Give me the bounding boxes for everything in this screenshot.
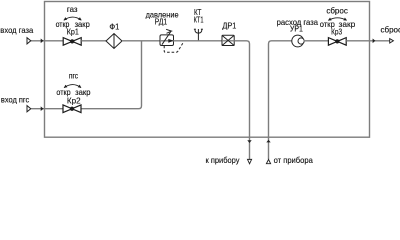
arc arrow откр/закр for Кр2 [64, 85, 81, 88]
svg-text:вход газа: вход газа [0, 26, 34, 35]
valve Kp1 [63, 38, 81, 46]
wire: ДР1 to к прибору drop [234, 41, 249, 160]
node: от прибора port triangle [266, 159, 270, 163]
flow arrow into box (пгс inlet) [41, 106, 44, 111]
filter Ф1 [106, 34, 122, 49]
wire: riser from пгс branch joining main line [81, 41, 141, 109]
svg-text:ДР1: ДР1 [222, 22, 236, 31]
svg-text:Кр1: Кр1 [67, 28, 79, 37]
test point KT1 symbol [194, 29, 203, 41]
dashed impulse line of РД1 [164, 43, 183, 52]
svg-text:сброс: сброс [381, 25, 400, 34]
wire: пгс inlet to valve Кр2 [31, 108, 63, 110]
wire: Кр3 to сброс outlet [346, 40, 390, 42]
wire: от прибора rise to УР1 [269, 41, 292, 160]
wire: F1 to regulator РД1 [122, 40, 160, 42]
valve Кр2 [63, 105, 81, 113]
wire: УР1 to Кр3 [304, 40, 329, 42]
svg-text:пгс: пгс [69, 72, 78, 81]
wire: РД1 to ДР1 [174, 40, 223, 42]
svg-text:вход пгс: вход пгс [1, 95, 29, 104]
node: вход пгс port triangle [27, 106, 31, 112]
svg-text:сброс: сброс [326, 6, 348, 15]
node: сброс port triangle [390, 39, 394, 43]
node: к прибору port triangle [248, 159, 252, 163]
svg-text:от прибора: от прибора [274, 156, 314, 165]
wire: gas inlet to valve Kp1 [31, 40, 64, 42]
svg-text:Кр3: Кр3 [331, 28, 342, 37]
flow arrow down (к прибору crossing) [247, 140, 251, 143]
svg-text:газ: газ [67, 5, 78, 14]
pressure regulator РД1 [160, 29, 174, 45]
wire: Kp1 to filter F1 [81, 40, 106, 42]
node: вход газа port triangle [27, 38, 31, 44]
svg-text:к прибору: к прибору [206, 156, 240, 165]
svg-text:РД1: РД1 [155, 17, 168, 26]
flow arrow into box (gas inlet) [41, 39, 44, 44]
arc arrow откр/закр for Кр3 [328, 18, 346, 21]
flow arrow out (сброс crossing) [373, 39, 376, 44]
throttle ДР1 [222, 35, 234, 45]
svg-text:Ф1: Ф1 [109, 22, 119, 31]
svg-text:УР1: УР1 [290, 25, 303, 34]
arc arrow откр/закр for Kp1 [64, 17, 82, 20]
svg-text:Кр2: Кр2 [67, 96, 81, 105]
flow meter УР1 [292, 35, 304, 47]
valve Кр3 [328, 38, 346, 46]
enclosure boundary box [45, 2, 370, 138]
flow arrow up (от прибора crossing) [266, 140, 270, 143]
svg-text:КТ1: КТ1 [194, 15, 204, 24]
